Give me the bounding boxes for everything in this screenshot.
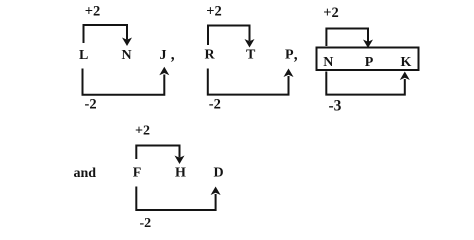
group 1 up arrowhead at J	[159, 67, 169, 76]
svg-text:R: R	[205, 48, 216, 63]
svg-text:+2: +2	[323, 5, 339, 21]
group 2 top bracket R to T	[208, 26, 250, 46]
svg-text:H: H	[175, 165, 186, 180]
svg-text:K: K	[401, 55, 412, 70]
group 3 top bracket N to P	[326, 29, 368, 47]
group 4 down arrowhead at H	[175, 156, 185, 165]
svg-text:-2: -2	[85, 96, 97, 112]
svg-text:+2: +2	[85, 3, 101, 19]
svg-text:,: ,	[171, 47, 175, 64]
svg-text:N: N	[122, 48, 132, 63]
svg-text:,: ,	[294, 47, 298, 64]
svg-text:-3: -3	[329, 98, 342, 115]
group 4 top bracket F to H	[136, 146, 179, 160]
group 2 down arrowhead at T	[245, 39, 255, 48]
svg-text:P: P	[285, 48, 294, 63]
svg-text:P: P	[365, 55, 374, 70]
group 4 up arrowhead at D	[211, 187, 221, 196]
svg-text:and: and	[74, 166, 97, 181]
group 3 up arrowhead at K	[400, 72, 410, 81]
svg-text:+2: +2	[206, 3, 222, 19]
svg-text:+2: +2	[135, 124, 150, 139]
group 4 bottom bracket F to D	[136, 187, 215, 211]
svg-text:-2: -2	[209, 97, 221, 113]
svg-text:T: T	[246, 48, 256, 63]
group 3 box around N P K	[317, 48, 419, 71]
group 3 down arrowhead at P	[363, 40, 373, 49]
group 1 top bracket L to N	[84, 25, 128, 43]
svg-text:-2: -2	[140, 216, 152, 231]
group 2 up arrowhead at P	[284, 69, 294, 78]
svg-text:J: J	[160, 48, 167, 63]
group 3 bottom bracket N to K	[326, 72, 405, 95]
group 2 bottom bracket R to P	[208, 69, 289, 95]
group 1 bottom bracket L to J	[83, 69, 165, 95]
svg-text:L: L	[79, 48, 88, 63]
svg-text:D: D	[214, 165, 224, 180]
svg-text:F: F	[133, 165, 142, 180]
group 1 down arrowhead at N	[122, 38, 132, 47]
svg-text:N: N	[323, 55, 333, 70]
